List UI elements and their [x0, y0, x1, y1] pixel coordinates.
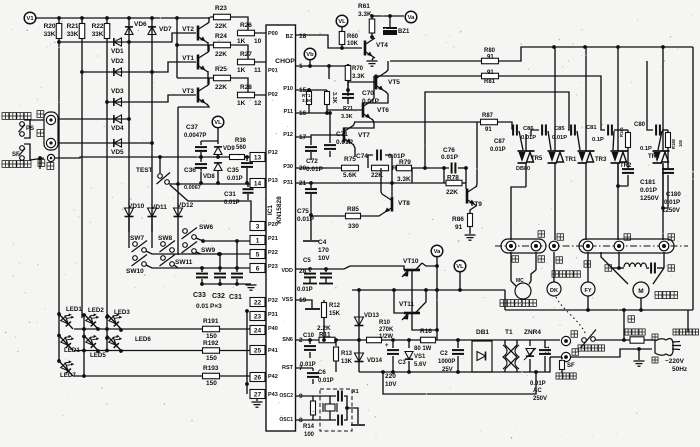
svg-text:P13: P13: [268, 178, 278, 184]
svg-text:T1: T1: [505, 329, 513, 336]
svg-text:VL: VL: [214, 120, 222, 126]
svg-text:P21: P21: [268, 236, 278, 242]
svg-text:R12: R12: [329, 303, 341, 309]
svg-text:24: 24: [254, 328, 262, 335]
svg-text:SF: SF: [12, 152, 20, 158]
svg-text:18: 18: [299, 33, 307, 40]
svg-text:26: 26: [254, 375, 262, 382]
svg-text:VT5: VT5: [388, 79, 400, 86]
svg-text:3.3K: 3.3K: [341, 114, 353, 120]
svg-text:R23: R23: [215, 5, 227, 12]
svg-text:C72: C72: [306, 158, 318, 165]
svg-text:VD5: VD5: [111, 149, 124, 156]
svg-text:VD13: VD13: [364, 313, 380, 319]
svg-text:VT11: VT11: [399, 301, 415, 308]
svg-text:13: 13: [254, 155, 262, 162]
svg-text:220: 220: [385, 373, 396, 380]
svg-text:DB1: DB1: [476, 329, 489, 336]
svg-text:VD8: VD8: [203, 174, 215, 180]
svg-text:R24: R24: [215, 33, 227, 40]
svg-text:Va: Va: [434, 249, 442, 255]
svg-text:1K: 1K: [237, 100, 246, 107]
svg-text:1/2W: 1/2W: [379, 334, 393, 340]
svg-text:VD10: VD10: [128, 203, 145, 210]
svg-text:V1: V1: [26, 16, 34, 22]
svg-text:MC: MC: [516, 278, 524, 284]
svg-text:22K: 22K: [215, 51, 227, 58]
svg-text:VD6: VD6: [134, 21, 147, 28]
svg-text:10: 10: [254, 38, 262, 45]
svg-text:P22: P22: [268, 250, 278, 256]
svg-text:R192: R192: [203, 340, 219, 347]
svg-text:91: 91: [485, 127, 492, 133]
svg-text:VD3: VD3: [111, 88, 124, 95]
svg-text:R26: R26: [240, 22, 252, 29]
svg-text:13K: 13K: [341, 359, 353, 365]
svg-text:0.01P: 0.01P: [297, 216, 315, 223]
svg-text:270K: 270K: [379, 327, 394, 333]
svg-text:C80: C80: [634, 122, 646, 128]
svg-text:VT4: VT4: [376, 42, 388, 49]
svg-text:3.3K: 3.3K: [331, 92, 337, 104]
svg-text:5.6V: 5.6V: [414, 362, 426, 368]
svg-text:VD9: VD9: [223, 146, 235, 152]
svg-text:SF: SF: [567, 363, 575, 369]
svg-text:SW7: SW7: [130, 235, 144, 242]
svg-text:170: 170: [318, 247, 329, 254]
svg-text:1: 1: [256, 238, 260, 245]
svg-text:0.01P: 0.01P: [640, 187, 658, 194]
svg-text:TR5: TR5: [531, 156, 543, 162]
svg-text:LED6: LED6: [135, 336, 151, 343]
svg-text:33K: 33K: [44, 31, 56, 38]
svg-text:P00: P00: [268, 31, 278, 37]
svg-text:R11: R11: [319, 332, 331, 339]
svg-text:P41: P41: [268, 348, 278, 354]
svg-text:33K: 33K: [67, 31, 79, 38]
svg-text:OSC2: OSC2: [279, 393, 293, 399]
svg-text:LED2: LED2: [88, 307, 104, 314]
svg-text:C71: C71: [336, 131, 348, 138]
svg-text:R181: R181: [619, 126, 624, 137]
svg-text:C32: C32: [212, 293, 225, 300]
svg-text:150: 150: [206, 333, 217, 340]
svg-text:TR1: TR1: [565, 157, 577, 163]
svg-text:0.01P: 0.01P: [227, 176, 243, 182]
svg-text:C31: C31: [224, 191, 236, 198]
svg-text:C85: C85: [554, 126, 565, 132]
svg-text:22K: 22K: [215, 84, 227, 91]
svg-text:10V: 10V: [318, 255, 330, 262]
svg-text:+: +: [385, 343, 389, 349]
svg-text:0.01P: 0.01P: [300, 362, 316, 368]
svg-text:C6: C6: [318, 370, 326, 376]
svg-text:VT8: VT8: [398, 200, 410, 207]
svg-text:25: 25: [254, 348, 262, 355]
svg-text:23: 23: [254, 314, 262, 321]
svg-text:3.3K: 3.3K: [302, 98, 312, 103]
svg-text:VD2: VD2: [111, 58, 124, 65]
svg-text:LED7: LED7: [60, 372, 76, 379]
svg-text:150: 150: [206, 380, 217, 387]
svg-text:6: 6: [256, 266, 260, 273]
svg-text:0.1P: 0.1P: [640, 146, 652, 152]
svg-text:0.01P: 0.01P: [224, 200, 240, 206]
svg-text:C36: C36: [184, 167, 196, 174]
svg-text:~220V: ~220V: [665, 358, 685, 365]
svg-text:VSS: VSS: [282, 297, 293, 303]
svg-text:0.01P: 0.01P: [441, 154, 459, 161]
svg-text:22: 22: [254, 300, 262, 307]
svg-text:0.01P: 0.01P: [490, 147, 506, 153]
svg-text:C10: C10: [303, 333, 315, 339]
svg-text:SW8: SW8: [158, 235, 172, 242]
svg-text:VD1: VD1: [111, 48, 124, 55]
svg-text:VS1: VS1: [414, 354, 426, 360]
svg-text:TR1: TR1: [648, 154, 660, 160]
svg-text:C81: C81: [586, 125, 597, 131]
svg-text:DB80: DB80: [516, 166, 530, 172]
svg-text:R193: R193: [203, 365, 219, 372]
svg-text:P02: P02: [268, 92, 278, 98]
svg-text:R79: R79: [399, 159, 411, 166]
svg-text:VT7: VT7: [358, 132, 370, 139]
svg-text:VL: VL: [456, 264, 464, 270]
svg-text:VDD: VDD: [281, 268, 293, 274]
svg-text:P32: P32: [268, 298, 278, 304]
svg-text:LED5: LED5: [90, 352, 106, 359]
svg-text:5.6K: 5.6K: [343, 172, 357, 179]
svg-text:R20: R20: [44, 23, 56, 30]
svg-text:TR3: TR3: [595, 157, 607, 163]
svg-text:91: 91: [487, 70, 494, 76]
svg-text:R87: R87: [482, 113, 494, 119]
svg-text:3.3K: 3.3K: [358, 11, 372, 18]
svg-text:R86: R86: [452, 216, 464, 223]
svg-text:5: 5: [256, 252, 260, 259]
svg-text:R25: R25: [215, 66, 227, 73]
svg-text:0.0067: 0.0067: [184, 185, 201, 191]
svg-text:14: 14: [254, 181, 262, 188]
svg-text:0.0047P: 0.0047P: [184, 133, 206, 139]
svg-text:15K: 15K: [329, 311, 341, 317]
svg-text:27: 27: [254, 392, 262, 399]
svg-text:SN6: SN6: [282, 337, 293, 343]
svg-text:0.01P: 0.01P: [664, 199, 680, 206]
svg-text:C5: C5: [303, 258, 311, 264]
svg-text:C74: C74: [356, 153, 368, 160]
svg-text:R85: R85: [347, 206, 359, 213]
svg-text:150: 150: [206, 355, 217, 362]
svg-text:VT9: VT9: [470, 201, 482, 208]
svg-text:R16: R16: [420, 328, 432, 335]
svg-text:P20: P20: [268, 222, 278, 228]
svg-text:AC: AC: [533, 388, 542, 394]
svg-text:R71: R71: [343, 106, 353, 112]
svg-text:R14: R14: [303, 424, 315, 430]
svg-text:R70: R70: [352, 66, 364, 72]
svg-text:P23: P23: [268, 264, 278, 270]
svg-text:C76: C76: [443, 147, 455, 154]
svg-text:TEST: TEST: [136, 167, 153, 174]
svg-text:VD14: VD14: [367, 358, 383, 364]
svg-text:0.01P: 0.01P: [530, 381, 546, 387]
svg-text:R10: R10: [379, 320, 391, 326]
svg-text:R22: R22: [92, 23, 104, 30]
svg-text:R191: R191: [203, 318, 219, 325]
svg-text:R180: R180: [671, 138, 676, 149]
svg-text:0.01P: 0.01P: [336, 139, 354, 146]
svg-text:VD12: VD12: [177, 202, 194, 209]
svg-text:VT6: VT6: [377, 107, 389, 114]
svg-text:3.3K: 3.3K: [352, 74, 365, 80]
svg-text:VT10: VT10: [403, 258, 419, 265]
svg-text:VT2: VT2: [182, 26, 194, 33]
svg-text:DK: DK: [550, 288, 558, 294]
svg-text:C3: C3: [398, 360, 406, 366]
svg-text:R80: R80: [484, 48, 496, 54]
svg-text:VD4: VD4: [111, 125, 124, 132]
svg-text:P42: P42: [268, 374, 278, 380]
svg-text:11: 11: [254, 67, 261, 74]
svg-text:VD7: VD7: [159, 26, 172, 33]
svg-text:C75: C75: [297, 208, 309, 215]
svg-text:3: 3: [256, 224, 260, 231]
svg-text:C31: C31: [229, 294, 242, 301]
svg-text:P40: P40: [268, 326, 278, 332]
svg-text:C4: C4: [318, 239, 327, 246]
svg-text:KN15828: KN15828: [276, 196, 283, 224]
svg-text:0.01P: 0.01P: [306, 166, 324, 173]
svg-text:C70: C70: [362, 90, 374, 97]
svg-text:P10: P10: [283, 86, 293, 92]
svg-text:R28: R28: [240, 84, 252, 91]
svg-text:FY: FY: [584, 288, 591, 294]
svg-text:R21: R21: [67, 23, 79, 30]
svg-text:Vb: Vb: [306, 52, 314, 58]
svg-text:C87: C87: [494, 139, 506, 145]
svg-text:10K: 10K: [347, 41, 359, 47]
svg-text:CHOP: CHOP: [275, 58, 295, 65]
svg-text:1K: 1K: [237, 67, 246, 74]
svg-text:0.01P: 0.01P: [552, 135, 567, 141]
svg-text:X1: X1: [352, 389, 359, 395]
svg-text:M: M: [638, 288, 643, 295]
svg-text:330: 330: [348, 223, 359, 230]
svg-text:560: 560: [236, 145, 247, 151]
svg-text:BZ: BZ: [286, 34, 294, 40]
svg-text:SW10: SW10: [126, 268, 144, 275]
svg-text:SW9: SW9: [201, 247, 215, 254]
svg-text:R13: R13: [341, 351, 353, 357]
svg-text:12: 12: [254, 100, 262, 107]
svg-text:33K: 33K: [92, 31, 104, 38]
svg-text:3.3K: 3.3K: [397, 176, 411, 183]
svg-text:C35: C35: [227, 167, 239, 174]
svg-text:VD11: VD11: [151, 204, 167, 211]
svg-text:R60: R60: [347, 34, 359, 40]
svg-text:1K: 1K: [237, 38, 246, 45]
svg-text:R36: R36: [235, 138, 247, 144]
svg-text:10V: 10V: [385, 381, 397, 388]
svg-text:0.01P: 0.01P: [521, 135, 536, 141]
svg-text:ZNR4: ZNR4: [524, 329, 541, 336]
svg-text:0.01: 0.01: [196, 303, 209, 310]
svg-text:0.01P: 0.01P: [297, 287, 313, 293]
svg-text:250V: 250V: [533, 396, 547, 402]
svg-text:P43: P43: [268, 392, 278, 398]
svg-text:P31: P31: [268, 312, 278, 318]
svg-text:C181: C181: [640, 179, 656, 186]
svg-text:C37: C37: [186, 124, 198, 131]
svg-text:VT3: VT3: [182, 88, 194, 95]
svg-text:C86: C86: [523, 126, 534, 132]
svg-text:IC1: IC1: [267, 205, 274, 216]
svg-text:91: 91: [455, 224, 463, 231]
svg-text:100: 100: [304, 432, 315, 438]
svg-text:P30: P30: [283, 164, 293, 170]
svg-text:80 1W: 80 1W: [414, 346, 432, 352]
svg-text:C33: C33: [193, 292, 206, 299]
svg-text:100: 100: [678, 139, 683, 147]
svg-text:P12: P12: [283, 132, 293, 138]
svg-text:P11: P11: [284, 109, 293, 115]
svg-text:P31: P31: [283, 180, 293, 186]
svg-text:BZ1: BZ1: [398, 29, 410, 35]
svg-text:C180: C180: [666, 191, 681, 198]
svg-text:22K: 22K: [446, 189, 458, 196]
svg-text:91: 91: [487, 55, 494, 61]
svg-text:P×3: P×3: [210, 303, 222, 310]
svg-text:R78: R78: [447, 175, 459, 182]
svg-text:R81: R81: [484, 79, 496, 85]
svg-text:Va: Va: [408, 15, 416, 21]
svg-text:50Hz: 50Hz: [672, 366, 688, 373]
svg-text:SW6: SW6: [199, 224, 213, 231]
svg-text:R27: R27: [240, 51, 252, 58]
svg-text:C2: C2: [440, 351, 448, 357]
svg-text:VL: VL: [338, 19, 346, 25]
svg-text:SW11: SW11: [175, 259, 193, 266]
svg-text:22K: 22K: [215, 23, 227, 30]
svg-text:R61: R61: [358, 3, 370, 10]
svg-text:C11: C11: [545, 346, 551, 355]
svg-text:P12: P12: [268, 150, 278, 156]
svg-text:R75: R75: [344, 156, 356, 163]
svg-text:OSC1: OSC1: [279, 417, 293, 423]
svg-text:LED1: LED1: [66, 306, 82, 313]
svg-text:VT1: VT1: [182, 55, 194, 62]
svg-text:1250V: 1250V: [640, 195, 659, 202]
svg-text:1000P: 1000P: [438, 359, 455, 365]
svg-text:0.1P: 0.1P: [592, 137, 604, 143]
svg-text:RST: RST: [282, 365, 294, 371]
